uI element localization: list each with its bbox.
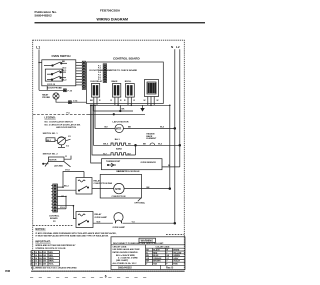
svg-text:BU: BU [128, 153, 132, 155]
svg-text:ALL OTHERS 18 GA. 105 C: ALL OTHERS 18 GA. 105 C [113, 262, 138, 265]
svg-text:AND DOOR SWITCH: AND DOOR SWITCH [56, 126, 76, 129]
svg-text:BK-1: BK-1 [47, 140, 51, 142]
sketch no1 label [43, 133, 59, 135]
svg-text:16: 16 [35, 255, 37, 257]
svg-text:BROWN: BROWN [153, 261, 161, 263]
node N [171, 45, 174, 49]
svg-text:DLB RELAY: DLB RELAY [91, 80, 103, 83]
svg-text:BK: BK [143, 144, 147, 146]
svg-text:SEW: SEW [49, 252, 53, 254]
wire L1 vertical [38, 50, 40, 91]
bake element R-bake label [116, 148, 123, 151]
bake element R-bake [110, 153, 127, 155]
hidden bake note [146, 133, 157, 140]
wire short bus lower [93, 110, 133, 112]
wire bake right [126, 154, 135, 156]
svg-text:OVEN SENSOR: OVEN SENSOR [141, 162, 157, 164]
wire bus A vertical [169, 105, 171, 188]
wire drop latch [95, 105, 115, 128]
relay K1 [91, 84, 99, 98]
svg-text:10: 10 [35, 264, 37, 266]
thermal fuse F1 [150, 143, 155, 145]
svg-text:LATCH MOTOR: LATCH MOTOR [113, 121, 129, 124]
svg-text:SEW: SEW [49, 255, 53, 257]
notice text [35, 232, 117, 238]
svg-text:VIOLET: VIOLET [173, 261, 181, 263]
svg-text:WARNING: WARNING [141, 239, 154, 243]
wire switch to connector row7 [76, 78, 83, 80]
color code table [146, 248, 186, 265]
svg-text:BLACK: BLACK [153, 249, 160, 252]
title rule [35, 22, 206, 24]
chassis ground arrow [141, 105, 144, 111]
important text [35, 244, 76, 250]
svg-text:DO NOT USE OHMMETER TO CHECK B: DO NOT USE OHMMETER TO CHECK BOARD [90, 69, 138, 72]
meat probe jack J1 [53, 93, 59, 99]
svg-text:OVEN LAMP: OVEN LAMP [95, 216, 108, 219]
svg-text:THERMOSTAT: THERMOSTAT [106, 160, 121, 163]
wire bus under board [93, 104, 170, 106]
svg-text:Rev. B: Rev. B [166, 267, 174, 270]
svg-text:W: W [144, 100, 146, 102]
junction lamp N [174, 222, 176, 224]
wire stub K3 pin a [127, 97, 129, 105]
svg-text:IF ANY ORIGINAL WIRE FURNISHED: IF ANY ORIGINAL WIRE FURNISHED WITH THIS… [35, 232, 117, 235]
svg-text:BK: BK [62, 61, 66, 63]
wire drop broil [94, 105, 110, 145]
svg-text:BK: BK [128, 144, 132, 146]
svg-text:MTR: MTR [115, 187, 121, 191]
connector P2 label [49, 215, 60, 223]
relay K2 label [112, 80, 119, 83]
svg-text:DOOR PROBE: DOOR PROBE [48, 88, 63, 90]
svg-text:W: W [157, 100, 159, 102]
svg-text:YELLOW: YELLOW [173, 252, 181, 254]
wire probe top [39, 90, 66, 92]
wire probe bottom to board [56, 99, 87, 102]
sensor probe symbol [107, 163, 116, 167]
svg-text:105: 105 [43, 255, 46, 257]
wire fan label [147, 187, 151, 189]
broil element R-broil label [115, 138, 121, 141]
svg-text:CONTROL: CONTROL [49, 215, 60, 217]
svg-text:BAKE: BAKE [112, 80, 119, 83]
wire fan to bus A [124, 188, 170, 190]
probe top pins [64, 89, 67, 92]
probe label top [48, 88, 73, 93]
wire bake labels [103, 153, 131, 155]
relay K2 [113, 84, 121, 98]
svg-text:PROBE: PROBE [42, 97, 50, 99]
svg-text:200: 200 [43, 261, 46, 263]
svg-text:SWITCH NO. 2: SWITCH NO. 2 [43, 154, 59, 156]
svg-text:6: 6 [105, 275, 107, 279]
probe bottom pin [69, 101, 72, 104]
svg-text:BK-6 = BLACK WIRE,: BK-6 = BLACK WIRE, [116, 254, 136, 257]
warning box [111, 237, 185, 270]
wire switch to connector row8 [76, 81, 83, 83]
color code divider [145, 245, 147, 265]
svg-text:NO. 1 DOOR LATCH SWITCH: NO. 1 DOOR LATCH SWITCH [45, 120, 74, 123]
svg-text:12: 12 [35, 261, 37, 263]
wire P2 row8 stub [57, 208, 66, 210]
svg-text:TGGL: TGGL [49, 264, 55, 266]
optional note [134, 198, 145, 205]
circuit code text [113, 247, 141, 265]
wire broil labels [103, 143, 162, 146]
svg-text:1: 1 [31, 252, 32, 254]
svg-text:BOARD: BOARD [50, 217, 58, 220]
wire sensor right [162, 166, 180, 168]
svg-text:WIRES AND NUT MAY BE IDENTIFIE: WIRES AND NUT MAY BE IDENTIFIED BY [35, 244, 76, 247]
svg-text:OVEN LAMP: OVEN LAMP [113, 226, 126, 229]
sketch no2 label [43, 154, 59, 156]
svg-text:SRML: SRML [49, 258, 55, 260]
svg-text:RED: RED [153, 252, 158, 254]
oven sensor labels [106, 160, 156, 173]
svg-text:105: 105 [43, 252, 46, 254]
wire stub K1 pin b [96, 97, 98, 105]
wire switch to connector row6 [76, 76, 83, 78]
oven switch S1 enclosure [42, 60, 76, 86]
console dashed divider [33, 113, 87, 115]
svg-text:BA-1: BA-1 [115, 138, 121, 141]
connector P3 ladder inside board [98, 65, 101, 81]
svg-text:WHITE: WHITE [173, 250, 180, 252]
wire relay K4 to fan [92, 188, 114, 190]
svg-text:NOTICE:: NOTICE: [35, 228, 45, 231]
svg-text:5995448302: 5995448302 [35, 14, 52, 18]
svg-text:(SEE CHART): (SEE CHART) [116, 259, 129, 262]
wire P2 row labels [60, 170, 70, 209]
svg-text:FEB756CBSA: FEB756CBSA [100, 8, 121, 12]
wire latch left label [105, 127, 109, 129]
wire drop bake [92, 105, 110, 155]
svg-text:USE WIRE GAUGE AND TEMP.: USE WIRE GAUGE AND TEMP. [113, 248, 141, 251]
wire stub K2 pin a [114, 97, 116, 105]
wire L2 vertical [179, 49, 181, 167]
legend heading [45, 117, 56, 120]
svg-text:LATCHED: LATCHED [54, 164, 64, 167]
color code table text [146, 249, 181, 266]
control board caution text [90, 69, 138, 72]
wire stub T1 pin b [150, 97, 152, 106]
warning header box [139, 238, 156, 242]
footer dashed rule [30, 276, 147, 278]
wire P2 top riser [57, 172, 84, 188]
svg-text:BLUE: BLUE [153, 255, 159, 257]
svg-text:BK-11: BK-11 [118, 171, 125, 173]
switch contact 2 [47, 71, 66, 75]
svg-text:3: 3 [31, 258, 32, 260]
legend line 2 [45, 123, 81, 126]
legend line 3 [56, 126, 76, 129]
warning footer divider [111, 264, 185, 266]
node L2 [176, 45, 180, 49]
connector P2 ladder [51, 184, 57, 212]
wire gauge table [31, 251, 59, 266]
relay K5 label [95, 213, 108, 219]
wire broil right [126, 144, 180, 146]
svg-text:ELEMENT: ELEMENT [146, 138, 157, 140]
border bottom solid line [31, 270, 184, 272]
wire switch to connector row9 [76, 84, 83, 86]
pin labels under board [90, 100, 159, 102]
wire stub T1 pin c [153, 97, 155, 106]
control board U1 box [87, 62, 164, 104]
switch contact 3 [47, 76, 66, 80]
wire latch right labels [128, 126, 165, 129]
sketch no2 drawing [43, 155, 72, 167]
relay K4 box [76, 178, 92, 195]
svg-text:BU: BU [105, 127, 109, 129]
junction broil L2 [179, 144, 181, 146]
svg-text:L1: L1 [36, 46, 40, 50]
latch motor M1 [115, 124, 123, 132]
svg-text:BK-1: BK-1 [62, 70, 68, 72]
svg-text:BK: BK [147, 187, 151, 189]
svg-text:V-6: V-6 [66, 146, 69, 148]
oven switch S1 inner box [45, 69, 62, 81]
warning text [113, 243, 164, 245]
switch wire labels [47, 61, 67, 86]
relay K4 label [94, 179, 113, 185]
table footnote [31, 266, 77, 269]
relay K4 top stub [83, 172, 85, 178]
svg-text:250: 250 [43, 264, 46, 266]
wire stub K2 pin b [117, 97, 119, 105]
svg-text:BK-6: BK-6 [103, 144, 109, 146]
oven lamp label [113, 226, 126, 229]
legend line 1 [45, 120, 74, 123]
svg-text:LEGEND:: LEGEND: [45, 117, 56, 120]
svg-text:W: W [166, 250, 168, 252]
relay K1 label [91, 80, 103, 83]
svg-text:ALL WIRING 600 VOLT 105 C UNLE: ALL WIRING 600 VOLT 105 C UNLESS SPECIFI… [31, 266, 77, 269]
svg-text:IMPORTANT:: IMPORTANT: [35, 240, 50, 243]
svg-text:OPTIONAL: OPTIONAL [134, 202, 145, 205]
broil element R-broil [110, 143, 127, 145]
junction fan bus A [169, 188, 171, 190]
node L1 [36, 46, 40, 50]
wire lamp left [93, 222, 113, 224]
svg-text:ORANGE: ORANGE [153, 257, 162, 260]
junction latch N [174, 127, 176, 129]
wire gauge table text [31, 251, 54, 266]
svg-text:BAKE: BAKE [116, 148, 123, 151]
svg-text:05M: 05M [5, 269, 10, 273]
svg-text:W: W [168, 165, 170, 167]
oven sensor box [102, 159, 163, 170]
transformer T1 [145, 80, 159, 97]
svg-text:NO. 2 CIRCUIT OF DOOR LATCH: NO. 2 CIRCUIT OF DOOR LATCH SW. [45, 123, 81, 126]
convection fan enclosure [100, 174, 141, 198]
oven lamp DS1 [114, 213, 123, 224]
junction dots misc [38, 62, 170, 207]
notice heading [35, 228, 45, 231]
svg-text:CONTROL BOARD: CONTROL BOARD [113, 56, 140, 60]
probe wire label [73, 99, 78, 102]
svg-text:OVEN SWITCH: OVEN SWITCH [52, 54, 71, 58]
console dashed divider lower [33, 224, 73, 226]
wire P2 to relay K4 row2 [57, 189, 76, 191]
wire lamp right [123, 222, 175, 224]
switch contact 1 [44, 62, 67, 66]
sketch no1 drawing [46, 136, 71, 147]
wire P2 to relay K5 [57, 206, 76, 219]
wire lamp labels [97, 222, 136, 224]
svg-text:CONVECTION FAN: CONVECTION FAN [94, 182, 113, 185]
svg-text:5995A48302: 5995A48302 [118, 267, 132, 270]
footer mark left [5, 269, 10, 273]
wire bus drop left 1 [92, 105, 94, 111]
svg-text:CONVECTION: CONVECTION [112, 196, 126, 198]
color code header [156, 247, 171, 249]
wire stub K1 pin a [93, 97, 95, 105]
svg-text:L2: L2 [176, 45, 180, 49]
connector P1 ladder [82, 61, 85, 89]
junction bake N [135, 144, 137, 146]
relay K3 label [125, 81, 132, 83]
diagram border frame [33, 40, 185, 271]
wire drop sensor [91, 105, 102, 163]
publication number text [35, 10, 58, 17]
svg-text:GRAY: GRAY [173, 257, 179, 260]
svg-text:SRML: SRML [49, 261, 55, 263]
latch motor M1 label [113, 121, 129, 124]
svg-text:IT MUST BE REPLACED WITH THE S: IT MUST BE REPLACED WITH THE SAME SIZE A… [35, 235, 109, 238]
wire switch to connector row2 [76, 64, 83, 66]
convection fan motor M2 [114, 183, 124, 193]
convection fan label [112, 196, 126, 198]
svg-text:5: 5 [31, 264, 32, 266]
wire switch to connector row5 [76, 73, 83, 75]
svg-text:BA-2: BA-2 [62, 79, 68, 82]
wire latch right [123, 127, 174, 129]
wire stub T1 pin a [147, 97, 149, 106]
svg-text:2: 2 [31, 255, 32, 257]
meat probe label [42, 93, 50, 99]
console dashed divider right [166, 234, 184, 236]
relay K5 box [76, 212, 93, 228]
svg-text:SWITCH NO. 1: SWITCH NO. 1 [43, 133, 59, 135]
svg-text:GY R-10: GY R-10 [47, 84, 56, 86]
svg-text:RATING SHOWN. EXAMPLE:: RATING SHOWN. EXAMPLE: [113, 251, 139, 254]
important heading [35, 240, 50, 243]
relay K3 [126, 84, 135, 98]
wire switch to connector row1 [76, 62, 83, 64]
junction bus dots [94, 105, 152, 107]
svg-text:BROIL: BROIL [125, 81, 132, 83]
svg-text:MEAT: MEAT [42, 93, 49, 96]
svg-text:GREEN: GREEN [173, 255, 180, 257]
warning divider [111, 244, 185, 246]
svg-text:STRIPES OR DOTS OF COLOR.: STRIPES OR DOTS OF COLOR. [35, 248, 66, 250]
wire switch to connector row4 [76, 70, 83, 72]
svg-text:BK: BK [128, 127, 132, 129]
wire stub K3 pin b [130, 97, 132, 105]
svg-text:MTR: MTR [116, 127, 122, 131]
svg-text:18: 18 [35, 252, 37, 254]
svg-text:MOTOR: MOTOR [49, 160, 57, 162]
wire switch to connector row3 [76, 67, 83, 69]
svg-text:RELAY: RELAY [95, 213, 102, 216]
wire sensor right label [168, 165, 170, 167]
part number footer [160, 265, 162, 269]
svg-text:200: 200 [43, 258, 46, 260]
svg-text:WIRING DIAGRAM: WIRING DIAGRAM [97, 17, 129, 21]
page number [105, 275, 107, 279]
wire neutral N vertical [174, 49, 176, 223]
